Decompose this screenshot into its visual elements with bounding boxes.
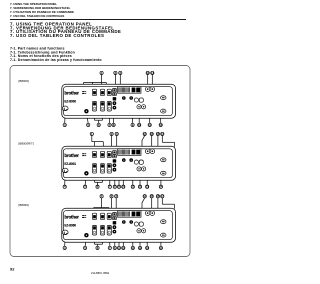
svg-text:15: 15: [150, 132, 153, 136]
callout 16: [156, 132, 160, 136]
svg-text:brother: brother: [64, 215, 79, 220]
wire: [94, 173, 96, 182]
wire: [116, 136, 118, 151]
oval buttons: [161, 220, 166, 237]
callout 5: [84, 185, 87, 189]
wire: [102, 235, 104, 244]
callout 8: [113, 246, 116, 250]
callout 8: [112, 123, 115, 127]
wire: [141, 203, 143, 211]
wire: [94, 111, 96, 120]
LCD display: [118, 211, 141, 218]
lower circle pair: [137, 167, 146, 171]
svg-text:brother: brother: [64, 91, 79, 96]
callout 9: [117, 185, 120, 189]
svg-text:14: 14: [151, 71, 154, 75]
wire: [102, 142, 104, 152]
svg-text:13: 13: [146, 185, 149, 189]
callout 6: [96, 246, 99, 250]
callout 8: [113, 185, 116, 189]
wire: [115, 198, 117, 213]
wire: [139, 233, 141, 246]
wire: [122, 162, 124, 185]
wire: [87, 113, 89, 123]
wire: [161, 198, 163, 204]
svg-text:[B8060]: [B8060]: [19, 203, 30, 207]
wire: [161, 177, 163, 179]
svg-text:12: 12: [139, 185, 142, 189]
svg-text:[B8000R/T]: [B8000R/T]: [19, 141, 34, 145]
callout 9: [131, 123, 134, 127]
wire: [122, 224, 124, 247]
round button pair: [145, 87, 154, 92]
svg-text:14: 14: [159, 246, 162, 250]
dark button left: [84, 171, 88, 175]
svg-text:brother: brother: [64, 153, 79, 158]
svg-text:13: 13: [146, 246, 149, 250]
svg-text:14: 14: [159, 185, 162, 189]
wire: [92, 82, 94, 89]
wire: [111, 198, 113, 213]
svg-text:10: 10: [138, 123, 141, 127]
knob button: [62, 230, 68, 235]
dark pair below display: [122, 96, 133, 100]
wire: [132, 224, 134, 247]
wire: [147, 74, 149, 86]
callout 9: [117, 246, 120, 250]
svg-text:15: 15: [150, 194, 153, 198]
stacked buttons column: [113, 89, 117, 110]
svg-text:EZ-8001: EZ-8001: [64, 162, 76, 166]
wire: [95, 243, 103, 245]
wire: [95, 119, 103, 121]
callout 12: [138, 246, 142, 250]
wire: [97, 244, 99, 246]
wire: [109, 111, 111, 123]
wire: [94, 235, 96, 244]
callout 3: [115, 194, 118, 198]
wire: [118, 156, 120, 186]
wire: [138, 109, 140, 123]
callout 11: [131, 185, 135, 189]
callout 10: [138, 123, 142, 127]
round button pair: [145, 211, 154, 216]
wire: [114, 74, 116, 88]
svg-text:LS2-B891, B892: LS2-B891, B892: [91, 272, 110, 275]
header rule: [10, 18, 186, 21]
svg-text:7-1. Denominación de las pieza: 7-1. Denominación de las piezas y funcio…: [10, 58, 102, 62]
callout 4: [63, 123, 66, 127]
wire: [160, 240, 162, 247]
knob button: [62, 106, 68, 111]
callout 3: [115, 132, 118, 136]
callout 15: [150, 194, 154, 198]
wire: [114, 234, 116, 247]
wire: [118, 217, 120, 246]
button cluster 2x3: [92, 89, 96, 95]
svg-text:11: 11: [148, 123, 151, 127]
wire: [162, 203, 174, 205]
callout 5: [87, 123, 90, 127]
wire: [161, 115, 164, 117]
indicator LEDs: [82, 153, 86, 156]
panel casing: [62, 146, 176, 180]
wire: [161, 136, 163, 143]
wire: [94, 207, 109, 209]
wire: [141, 140, 143, 149]
dark button left: [84, 233, 88, 237]
wire: [98, 120, 100, 123]
wire: [160, 178, 162, 185]
callout 2: [110, 194, 113, 198]
wire: [94, 142, 96, 152]
wire: [139, 171, 141, 185]
knob button: [62, 168, 68, 173]
callout 17: [161, 194, 165, 198]
wire: [161, 239, 163, 241]
wire: [108, 208, 110, 214]
selector circle + square: [134, 222, 143, 226]
svg-text:12: 12: [139, 246, 142, 250]
wire: [132, 94, 134, 124]
wire: [109, 235, 111, 246]
wire: [64, 235, 67, 247]
wire: [146, 238, 148, 246]
wire: [174, 142, 176, 147]
dark pair below display: [122, 158, 133, 162]
callout 1: [90, 132, 93, 136]
panel casing: [62, 84, 176, 118]
svg-text:11: 11: [131, 185, 134, 189]
wire: [102, 173, 104, 182]
callout 15: [150, 132, 154, 136]
wire: [162, 175, 164, 178]
wire: [101, 74, 103, 89]
LCD display: [118, 149, 141, 156]
callout 13: [146, 185, 150, 189]
svg-text:10: 10: [122, 185, 125, 189]
panel casing: [62, 208, 176, 242]
callout 1: [100, 71, 103, 75]
wire: [151, 198, 153, 211]
callout 6: [97, 123, 100, 127]
callout 14: [159, 246, 163, 250]
dark button left: [84, 109, 88, 113]
svg-text:92: 92: [10, 266, 15, 271]
wire: [160, 116, 162, 123]
callout 2: [110, 132, 113, 136]
callout 16: [156, 194, 160, 198]
selector circle + square: [134, 98, 143, 102]
wire: [142, 136, 145, 141]
stacked buttons column: [113, 151, 117, 172]
callout 11: [148, 123, 152, 127]
callout 10: [122, 185, 126, 189]
wire: [105, 82, 107, 89]
callout 13: [146, 71, 150, 75]
svg-text:17: 17: [161, 132, 164, 136]
svg-text:14: 14: [143, 194, 146, 198]
svg-text:[B8000]: [B8000]: [19, 79, 30, 83]
wire: [85, 176, 86, 186]
wire: [101, 198, 103, 208]
wire: [174, 204, 176, 209]
LCD display: [118, 87, 141, 94]
wire: [92, 141, 104, 143]
svg-text:17: 17: [161, 194, 164, 198]
lower circle pair: [137, 105, 146, 109]
callout 14: [143, 194, 147, 198]
selector circle + square: [134, 160, 143, 164]
callout 4: [63, 185, 66, 189]
wire: [91, 136, 93, 142]
callout 14: [143, 132, 147, 136]
wire: [162, 141, 174, 143]
button cluster 2x3: [92, 151, 96, 157]
dark pair below display: [122, 220, 133, 224]
callout 7: [108, 185, 111, 189]
wire: [95, 181, 103, 183]
callout 5: [84, 246, 87, 250]
wire: [162, 113, 164, 116]
stacked buttons column: [113, 213, 117, 234]
wire: [157, 136, 159, 160]
wire: [97, 182, 99, 185]
wire: [157, 198, 159, 222]
indicator LEDs: [82, 215, 86, 218]
callout 3: [119, 71, 122, 75]
svg-text:16: 16: [156, 194, 159, 198]
callout 12: [159, 123, 163, 127]
oval buttons: [161, 158, 166, 175]
wire: [64, 173, 67, 185]
callout 7: [108, 123, 111, 127]
svg-text:7. USO DEL TABLERO DE CONTROLE: 7. USO DEL TABLERO DE CONTROLES: [10, 33, 104, 38]
svg-text:12: 12: [159, 123, 162, 127]
svg-text:10: 10: [122, 246, 125, 250]
svg-text:16: 16: [156, 132, 159, 136]
indicator LEDs: [82, 91, 86, 94]
callout 10: [122, 246, 126, 250]
callout 14: [151, 71, 155, 75]
wire: [83, 82, 85, 88]
button cluster 2x3: [92, 213, 96, 219]
callout 4: [63, 246, 66, 250]
callout 7: [108, 246, 111, 250]
callout 2: [114, 71, 117, 75]
callout 12: [138, 185, 142, 189]
callout 17: [161, 132, 165, 136]
wire: [113, 110, 115, 124]
svg-text:11: 11: [131, 246, 134, 250]
wire: [64, 111, 67, 124]
wire: [146, 177, 148, 186]
wire: [149, 113, 151, 124]
wire: [102, 111, 104, 120]
wire: [114, 172, 116, 186]
wire: [119, 74, 121, 88]
wire: [142, 198, 145, 203]
wire: [93, 208, 95, 214]
wire: [84, 81, 107, 83]
callout 11: [131, 246, 135, 250]
svg-text:EZ-8060: EZ-8060: [64, 224, 76, 228]
oval buttons: [161, 96, 166, 113]
lower circle pair: [137, 229, 146, 233]
wire: [85, 237, 86, 246]
callout 6: [96, 185, 99, 189]
wire: [151, 136, 153, 150]
svg-text:EZ-8000: EZ-8000: [64, 100, 76, 104]
round button pair: [145, 149, 154, 154]
wire: [109, 173, 111, 185]
callout 14: [159, 185, 163, 189]
wire: [151, 74, 153, 86]
svg-text:7. USO DEL TABLERO DE CONTROLE: 7. USO DEL TABLERO DE CONTROLES: [10, 14, 64, 18]
wire: [132, 162, 134, 185]
wire: [111, 136, 113, 151]
container box: [10, 66, 190, 257]
wire: [162, 237, 164, 240]
callout 1: [100, 194, 103, 198]
svg-text:13: 13: [146, 71, 149, 75]
callout 13: [146, 246, 150, 250]
svg-text:14: 14: [143, 132, 146, 136]
